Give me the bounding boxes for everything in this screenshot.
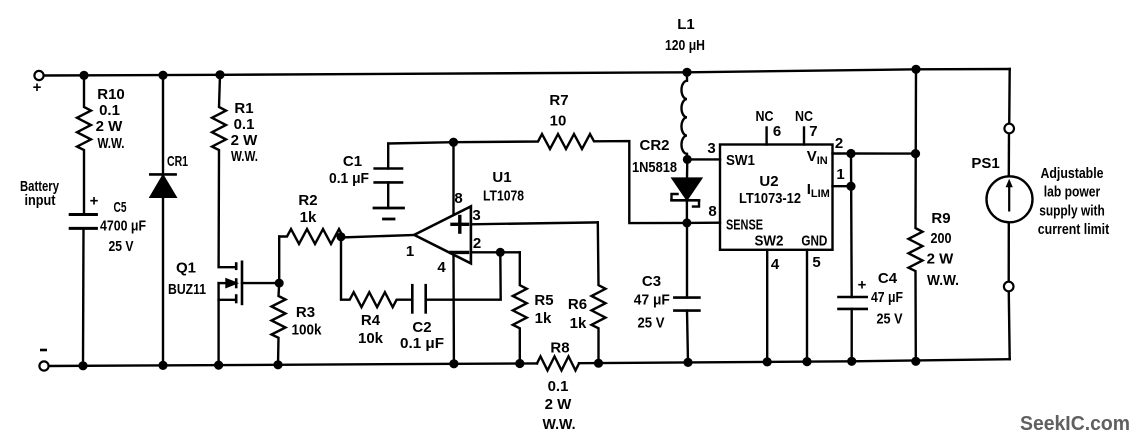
svg-text:R3: R3 — [296, 304, 315, 321]
svg-text:LT1073-12: LT1073-12 — [739, 190, 801, 207]
svg-text:47 μF: 47 μF — [634, 292, 670, 309]
svg-text:SW2: SW2 — [755, 233, 784, 250]
svg-text:0.1: 0.1 — [548, 378, 569, 395]
svg-text:Q1: Q1 — [176, 260, 196, 277]
svg-text:0.1 μF: 0.1 μF — [329, 170, 369, 187]
svg-text:10: 10 — [550, 113, 567, 130]
svg-text:L1: L1 — [677, 16, 695, 33]
svg-text:PS1: PS1 — [971, 155, 999, 172]
svg-text:R4: R4 — [361, 312, 381, 329]
svg-text:6: 6 — [773, 123, 781, 140]
svg-text:8: 8 — [454, 190, 462, 207]
svg-text:C2: C2 — [412, 319, 431, 336]
svg-text:+: + — [90, 193, 99, 210]
svg-text:100k: 100k — [292, 322, 323, 339]
svg-text:U1: U1 — [492, 169, 511, 186]
svg-text:W.W.: W.W. — [231, 148, 258, 165]
svg-text:NC: NC — [756, 108, 774, 125]
svg-text:7: 7 — [809, 123, 817, 140]
svg-text:GND: GND — [801, 233, 827, 250]
svg-text:supply with: supply with — [1039, 203, 1105, 220]
svg-text:VIN: VIN — [807, 148, 828, 167]
svg-text:4: 4 — [771, 256, 780, 273]
svg-text:R5: R5 — [534, 292, 553, 309]
svg-text:8: 8 — [708, 203, 716, 220]
svg-text:Adjustable: Adjustable — [1041, 165, 1104, 182]
svg-text:2 W: 2 W — [231, 132, 259, 149]
svg-text:R6: R6 — [568, 296, 587, 313]
svg-text:R1: R1 — [234, 100, 253, 117]
svg-text:BUZ11: BUZ11 — [168, 281, 206, 298]
svg-text:4700 μF: 4700 μF — [100, 218, 146, 235]
svg-text:2: 2 — [835, 135, 843, 152]
svg-text:1N5818: 1N5818 — [632, 159, 677, 176]
svg-text:W.W.: W.W. — [98, 135, 125, 152]
svg-text:25 V: 25 V — [638, 315, 665, 332]
svg-text:4: 4 — [437, 259, 446, 276]
svg-text:C3: C3 — [642, 273, 661, 290]
svg-text:R8: R8 — [550, 340, 569, 357]
svg-text:SW1: SW1 — [726, 152, 755, 169]
svg-text:2 W: 2 W — [96, 118, 124, 135]
svg-text:2: 2 — [473, 235, 481, 252]
svg-text:R9: R9 — [931, 210, 950, 227]
svg-text:1k: 1k — [535, 310, 552, 327]
svg-text:1: 1 — [836, 166, 844, 183]
svg-text:1k: 1k — [300, 209, 317, 226]
svg-text:lab power: lab power — [1044, 184, 1101, 201]
svg-text:R2: R2 — [298, 192, 317, 209]
svg-text:0.1: 0.1 — [234, 116, 255, 133]
svg-text:+: + — [858, 277, 867, 294]
svg-text:input: input — [25, 192, 56, 209]
svg-text:C5: C5 — [114, 199, 127, 216]
svg-text:25 V: 25 V — [109, 238, 134, 255]
svg-text:LT1078: LT1078 — [483, 188, 524, 205]
svg-text:R10: R10 — [97, 86, 125, 103]
svg-text:0.1 μF: 0.1 μF — [400, 335, 444, 352]
svg-text:C1: C1 — [343, 153, 362, 170]
svg-text:10k: 10k — [358, 330, 384, 347]
svg-text:3: 3 — [707, 140, 715, 157]
svg-text:R7: R7 — [549, 92, 568, 109]
svg-text:2 W: 2 W — [545, 396, 573, 413]
svg-text:25 V: 25 V — [877, 311, 903, 328]
svg-text:U2: U2 — [759, 173, 778, 190]
svg-text:W.W.: W.W. — [543, 416, 576, 433]
svg-text:47 μF: 47 μF — [871, 289, 903, 306]
svg-text:200: 200 — [931, 230, 952, 247]
svg-text:0.1: 0.1 — [99, 102, 120, 119]
svg-text:SeekIC.com: SeekIC.com — [1020, 413, 1130, 435]
svg-text:1k: 1k — [570, 315, 587, 332]
svg-text:W.W.: W.W. — [927, 272, 959, 289]
svg-text:+: + — [33, 79, 42, 96]
svg-text:C4: C4 — [878, 270, 898, 287]
svg-text:2 W: 2 W — [927, 251, 955, 268]
svg-text:120 μH: 120 μH — [665, 37, 705, 54]
svg-text:5: 5 — [812, 254, 820, 271]
svg-text:ILIM: ILIM — [807, 181, 830, 200]
svg-text:CR2: CR2 — [639, 137, 669, 154]
svg-text:current limit: current limit — [1038, 221, 1109, 238]
svg-text:1: 1 — [406, 243, 414, 260]
svg-text:CR1: CR1 — [167, 153, 188, 170]
svg-text:3: 3 — [472, 207, 480, 224]
svg-text:SENSE: SENSE — [726, 217, 763, 234]
